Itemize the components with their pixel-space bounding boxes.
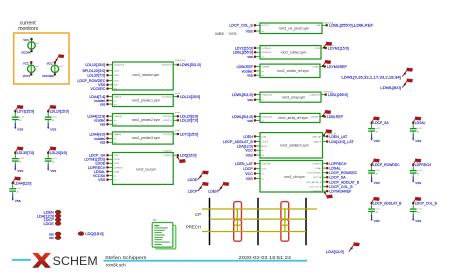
flag LDYMSAREF	[324, 192, 333, 199]
svg-text:LDEN_LAT: LDEN_LAT	[312, 135, 322, 138]
svg-text:LDYMG: LDYMG	[312, 66, 319, 68]
capacitor C_LDSAL	[410, 117, 426, 143]
svg-text:rom2_sa.sym: rom2_sa.sym	[136, 167, 156, 171]
net label LDCP	[188, 182, 209, 194]
svg-text:rom2_predec1.sym: rom2_predec1.sym	[132, 99, 160, 103]
svg-text:LDL2X[3:0]: LDL2X[3:0]	[163, 116, 172, 118]
svg-text:LDYM: LDYM	[315, 48, 320, 50]
svg-text:vss: vss	[247, 98, 253, 102]
svg-text:LDWL[0,16,32,1,17,33,2,18,34]: LDWL[0,16,32,1,17,33,2,18,34]	[341, 75, 400, 79]
svg-text:LDCP: LDCP	[261, 169, 267, 171]
capacitor C_LDPRECH	[410, 159, 432, 185]
svg-text:LDWL[511:0]: LDWL[511:0]	[261, 95, 272, 97]
svg-text:LDCP_B: LDCP_B	[261, 141, 269, 143]
port LDQ[15:0]	[78, 231, 103, 236]
svg-text:VSS: VSS	[17, 169, 23, 173]
svg-text:rom8k.sch: rom8k.sch	[106, 263, 126, 269]
svg-text:LDL1X[15:0]: LDL1X[15:0]	[162, 96, 172, 98]
text author	[105, 255, 147, 261]
svg-text:VCC: VCC	[23, 38, 29, 42]
block U12 rom2_ctrl	[235, 161, 360, 194]
capacitor C_LDCP_ADDLAT_B	[368, 197, 402, 223]
svg-text:LDCP_SA: LDCP_SA	[373, 121, 389, 125]
svg-text:m=1: m=1	[36, 43, 40, 45]
svg-text:m=16: m=16	[376, 128, 381, 130]
svg-text:LDSAL: LDSAL	[315, 167, 321, 170]
svg-text:rom2_array_ref.sym: rom2_array_ref.sym	[278, 116, 308, 120]
flag LDYMGREF	[322, 60, 331, 67]
svg-text:VSS: VSS	[50, 169, 56, 173]
svg-text:rom2_coldec_ref.sym: rom2_coldec_ref.sym	[277, 69, 309, 73]
text attr U11	[327, 132, 337, 135]
svg-text:LDWL[511:0]: LDWL[511:0]	[261, 116, 272, 118]
svg-text:m=16: m=16	[417, 128, 422, 130]
svg-text:LDCP_COL_B: LDCP_COL_B	[415, 202, 438, 206]
svg-text:LDCP_ADDLAT_B: LDCP_ADDLAT_B	[329, 180, 359, 184]
svg-text:LDA[12:0]: LDA[12:0]	[326, 249, 344, 254]
svg-text:LDWL[8:0]: LDWL[8:0]	[380, 86, 401, 90]
net label LDWL[8:0]	[380, 79, 412, 90]
svg-text:LDCP_COL_B: LDCP_COL_B	[309, 186, 321, 188]
svg-text:LDL1X[15:0]: LDL1X[15:0]	[50, 110, 69, 114]
svg-text:LDA[12:0]: LDA[12:0]	[313, 140, 321, 143]
svg-text:VSS: VSS	[17, 127, 23, 131]
port vcc	[49, 236, 61, 240]
net label LDWL[0,16,32,...]	[341, 68, 412, 80]
svg-text:LDWL[255:0]: LDWL[255:0]	[161, 65, 172, 67]
svg-text:m=16: m=16	[417, 208, 422, 210]
timing diagram markers	[210, 198, 307, 245]
svg-text:LDOE: LDOE	[114, 163, 120, 165]
svg-text:m=16: m=16	[52, 158, 57, 160]
svg-text:LDCP_COL_B: LDCP_COL_B	[229, 24, 253, 28]
port LDOE	[43, 222, 61, 226]
svg-text:LDCP_SA: LDCP_SA	[313, 176, 322, 179]
svg-text:LDWL[511:0]: LDWL[511:0]	[180, 63, 201, 67]
svg-text:VCC7: VCC7	[23, 74, 31, 78]
text attr U6	[323, 22, 333, 24]
text attr U4	[175, 130, 181, 132]
svg-text:VCC: VCC	[245, 149, 253, 153]
wire PRECH waveform	[202, 219, 306, 231]
svg-text:vcc: vcc	[261, 71, 264, 73]
svg-text:LDCP_B: LDCP_B	[261, 25, 269, 27]
svg-text:0: 0	[59, 70, 60, 72]
block U7 rom2_coldec	[233, 46, 349, 60]
block U4 rom2_predec3	[89, 132, 198, 145]
svg-text:LDBL[255:0]: LDBL[255:0]	[323, 92, 333, 94]
block U8 rom2_coldec_ref	[237, 64, 348, 78]
frame current monitors box	[14, 33, 69, 84]
block U9 rom3_array	[232, 92, 348, 102]
timing highlight boxes	[234, 202, 289, 242]
svg-text:vcc: vcc	[261, 150, 264, 152]
capacitor C_LDA4	[9, 177, 31, 203]
svg-text:vss: vss	[261, 120, 264, 122]
svg-text:LDCP: LDCP	[188, 190, 198, 194]
svg-text:LDPRECH: LDPRECH	[313, 163, 322, 165]
svg-text:LDBLREF: LDBLREF	[261, 66, 270, 68]
svg-text:LDQ[15:0]: LDQ[15:0]	[180, 154, 196, 158]
svg-text:LDL3X: LDL3X	[114, 75, 120, 77]
block U3 rom2_predec2	[87, 114, 198, 127]
svg-text:vss: vss	[247, 55, 253, 59]
svg-text:VCC: VCC	[245, 172, 253, 176]
logo text SCHEM	[53, 254, 98, 268]
svg-text:m=16: m=16	[376, 170, 381, 172]
svg-text:LDYMSAREF: LDYMSAREF	[310, 190, 322, 193]
svg-text:rom3_rowdec.sym: rom3_rowdec.sym	[132, 73, 159, 77]
svg-text:vss: vss	[100, 141, 106, 145]
note current monitors	[18, 20, 38, 32]
svg-text:LDYM1[15:0]: LDYM1[15:0]	[328, 46, 349, 50]
logo xschem dash	[12, 259, 31, 261]
svg-text:m=16: m=16	[376, 208, 381, 210]
svg-text:LDCP_ROWDEC: LDCP_ROWDEC	[373, 163, 400, 167]
svg-text:LDBL[255:0]: LDBL[255:0]	[323, 22, 333, 24]
svg-text:rom2_ctrl.sym: rom2_ctrl.sym	[284, 175, 305, 179]
svg-text:monitors: monitors	[18, 26, 38, 32]
net label LDA[12:0] spare	[326, 243, 360, 255]
svg-text:rom2_predec3.sym: rom2_predec3.sym	[132, 136, 160, 140]
svg-text:LDWL[511:0]: LDWL[511:0]	[232, 93, 253, 97]
capacitor C_LDL1X	[45, 105, 69, 131]
text CP	[195, 212, 201, 217]
svg-text:m=16: m=16	[19, 117, 24, 119]
svg-text:LDL1X[15:0]: LDL1X[15:0]	[85, 63, 105, 67]
svg-text:LDL3X[7:0]: LDL3X[7:0]	[17, 151, 34, 155]
svg-text:LDEN_LAT: LDEN_LAT	[235, 162, 254, 166]
svg-text:VSS: VSS	[15, 199, 21, 203]
svg-text:LDSAL: LDSAL	[114, 170, 120, 173]
svg-text:LDCP: LDCP	[114, 155, 120, 157]
ammeter VCC64	[21, 38, 39, 55]
flag LDBLREF	[322, 110, 331, 117]
svg-text:LDCP_ROWDEC: LDCP_ROWDEC	[329, 171, 357, 175]
svg-text:LDWL[511:0]: LDWL[511:0]	[175, 60, 186, 62]
svg-text:LDBLREF: LDBLREF	[311, 116, 320, 118]
svg-text:LDBL[255:0]: LDBL[255:0]	[233, 51, 253, 55]
svg-text:LDQ[15:0]: LDQ[15:0]	[163, 151, 172, 153]
svg-text:LDEN: LDEN	[243, 135, 253, 139]
text date	[239, 255, 292, 261]
svg-text:VSS: VSS	[50, 127, 56, 131]
svg-text:LDL2X[3:0]: LDL2X[3:0]	[50, 151, 67, 155]
svg-text:VCC0RC: VCC0RC	[91, 87, 106, 91]
svg-text:LDCP: LDCP	[243, 167, 253, 171]
svg-text:vss: vss	[114, 104, 117, 106]
svg-text:LDBLREF: LDBLREF	[327, 115, 344, 119]
svg-text:m=1: m=1	[59, 66, 63, 68]
svg-text:LDY1[15:0]: LDY1[15:0]	[17, 110, 34, 114]
svg-text:LDSAL: LDSAL	[415, 121, 426, 125]
text attr U1	[175, 60, 186, 62]
svg-text:LDY1[15:0]: LDY1[15:0]	[163, 134, 172, 136]
svg-text:LDBL: LDBL	[316, 25, 321, 27]
svg-text:2020-02-03 16:51:24: 2020-02-03 16:51:24	[239, 255, 292, 261]
svg-text:LDCP_ADDLAT_B: LDCP_ADDLAT_B	[306, 181, 322, 184]
svg-text:rom2_addlatch.sym: rom2_addlatch.sym	[280, 143, 309, 147]
svg-text:rom2_predec2.sym: rom2_predec2.sym	[132, 118, 160, 122]
wire CP waveform	[202, 209, 317, 219]
svg-text:LDPRECH: LDPRECH	[415, 163, 432, 167]
svg-text:LDBL[255:0],LDBLREF: LDBL[255:0],LDBLREF	[329, 24, 374, 28]
svg-text:A[12:0]: A[12:0]	[261, 145, 267, 148]
flag LDEN_LAT	[323, 130, 332, 137]
text attr U5	[163, 151, 172, 153]
flag LDYM1	[323, 42, 332, 49]
svg-text:vss: vss	[114, 180, 117, 182]
svg-text:LDY2[15:0]: LDY2[15:0]	[261, 48, 270, 50]
svg-text:rom2_coldec.sym: rom2_coldec.sym	[281, 51, 307, 55]
svg-text:WBE: WBE	[215, 31, 224, 36]
svg-text:rom3_array.sym: rom3_array.sym	[282, 95, 306, 99]
svg-text:LDL1X[15:0]: LDL1X[15:0]	[180, 95, 200, 99]
svg-text:vsa: vsa	[261, 75, 264, 77]
title underline	[104, 260, 308, 262]
svg-text:LDOE: LDOE	[188, 178, 198, 182]
svg-text:LDPRECH: LDPRECH	[329, 162, 347, 166]
svg-text:LDQ[15:0]: LDQ[15:0]	[164, 155, 173, 157]
logo xschem X	[32, 253, 51, 268]
capacitor C_LDY1	[12, 105, 34, 131]
port LDA[12:0]	[37, 214, 61, 218]
svg-text:LDCP_ADDLAT_B: LDCP_ADDLAT_B	[373, 202, 402, 206]
text attr U2	[175, 93, 181, 95]
svg-text:vss: vss	[261, 155, 264, 157]
svg-text:vss: vss	[247, 119, 253, 123]
svg-text:vss: vss	[114, 124, 117, 126]
svg-text:vccdec: vccdec	[175, 130, 181, 132]
capacitor C_LDCP_ROWDEC	[368, 159, 400, 185]
svg-text:LDEN: LDEN	[261, 136, 266, 138]
text PRECH	[186, 224, 201, 229]
wire CP complement waveform	[210, 209, 307, 219]
svg-text:0: 0	[36, 46, 37, 48]
svg-text:LDSAL: LDSAL	[329, 167, 340, 171]
svg-text:vccdec: vccdec	[175, 112, 181, 114]
block U10 rom2_array_ref	[232, 113, 344, 122]
svg-text:VSS: VSS	[246, 29, 254, 33]
svg-text:LDL1X[15:0]: LDL1X[15:0]	[114, 65, 124, 67]
svg-text:vcc: vcc	[114, 138, 117, 140]
svg-text:VSS: VSS	[415, 139, 421, 143]
svg-text:m=16: m=16	[17, 188, 22, 190]
svg-text:LDA4[3:0]: LDA4[3:0]	[89, 132, 105, 136]
svg-text:LDCP_ADDLAT_B: LDCP_ADDLAT_B	[223, 140, 253, 144]
svg-text:SCHEM: SCHEM	[53, 254, 98, 268]
svg-text:vcc: vcc	[261, 173, 264, 175]
svg-text:LDBL[255:0]: LDBL[255:0]	[310, 95, 320, 97]
svg-text:vss: vss	[114, 142, 117, 144]
net label LDEN	[208, 182, 229, 194]
port LDCP	[44, 218, 61, 222]
svg-text:LDL3X[7:0]: LDL3X[7:0]	[163, 120, 172, 122]
svg-text:vss: vss	[261, 31, 264, 33]
svg-text:vccdec: vccdec	[175, 93, 181, 95]
svg-text:LDPRECH: LDPRECH	[114, 167, 123, 169]
svg-text:m=16: m=16	[417, 170, 422, 172]
svg-text:m=1: m=1	[36, 66, 40, 68]
block U6 rom2_col_prech	[229, 23, 374, 34]
text WBE VSS	[215, 31, 237, 36]
svg-text:VSS: VSS	[415, 181, 421, 185]
port LDEN	[44, 210, 61, 214]
svg-text:VSS: VSS	[374, 219, 380, 223]
svg-text:LDL3X[7:0]: LDL3X[7:0]	[180, 119, 198, 123]
svg-text:vss: vss	[261, 57, 264, 59]
svg-text:VSS: VSS	[415, 219, 421, 223]
svg-text:LDA4[12:0]: LDA4[12:0]	[14, 181, 31, 185]
svg-text:VSS: VSS	[246, 153, 254, 157]
svg-text:PRECH: PRECH	[186, 224, 201, 229]
svg-text:VSS: VSS	[374, 181, 380, 185]
block U1 rom3_rowdec	[77, 62, 200, 91]
block U2 rom2_predec1	[89, 95, 200, 107]
svg-text:CP: CP	[195, 212, 201, 217]
svg-text:VSS: VSS	[229, 31, 237, 36]
svg-text:0: 0	[36, 70, 37, 72]
svg-text:rom2_col_prech.sym: rom2_col_prech.sym	[279, 26, 310, 30]
text attr U9	[323, 92, 333, 94]
svg-text:LDL3X[7:0]: LDL3X[7:0]	[87, 74, 105, 78]
port vss	[49, 232, 61, 236]
svg-text:LDY1[15:0]: LDY1[15:0]	[180, 132, 198, 136]
svg-text:VCC0RC: VCC0RC	[42, 74, 54, 78]
svg-text:BPLDL2X[3:0]: BPLDL2X[3:0]	[83, 69, 106, 73]
svg-text:LDYMSAREF: LDYMSAREF	[329, 190, 352, 194]
net label LDOE	[188, 171, 209, 183]
svg-text:vcc: vcc	[114, 100, 117, 102]
svg-text:LDA[3:0]: LDA[3:0]	[114, 133, 121, 136]
svg-text:LDYM1: LDYM1	[114, 159, 120, 161]
svg-text:LDOE: LDOE	[43, 222, 54, 226]
svg-text:vss: vss	[261, 178, 264, 180]
text attr U3	[175, 112, 181, 114]
capacitor C_LDCP_SA	[368, 117, 389, 143]
svg-text:vss: vss	[100, 103, 106, 107]
capacitor C_LDCP_COL_B	[410, 197, 438, 223]
svg-text:VSS: VSS	[246, 177, 254, 181]
svg-text:LDQ[15:0]: LDQ[15:0]	[85, 231, 103, 236]
svg-text:LDCP_SA: LDCP_SA	[329, 176, 346, 180]
text attr U7	[323, 45, 334, 47]
svg-text:m=16: m=16	[19, 158, 24, 160]
svg-text:LDYMGREF: LDYMGREF	[327, 65, 348, 69]
svg-text:VCC64: VCC64	[21, 51, 31, 55]
svg-text:S4: S4	[153, 218, 157, 222]
svg-text:VSS: VSS	[374, 139, 380, 143]
ammeter VCC0RC	[42, 54, 64, 78]
svg-text:LDCP: LDCP	[114, 81, 120, 83]
svg-text:LDCP_ROWDEC: LDCP_ROWDEC	[307, 173, 322, 175]
ammeter VCC7	[23, 61, 39, 78]
capacitor C_LDL2X	[45, 147, 67, 173]
svg-text:LDA[12:8]: LDA[12:8]	[114, 115, 122, 118]
svg-text:vss: vss	[261, 100, 264, 102]
svg-text:vcc: vcc	[49, 236, 54, 240]
text schematic file	[106, 263, 126, 269]
svg-text:LDEN: LDEN	[208, 190, 218, 194]
svg-text:LDL2X: LDL2X	[114, 71, 120, 73]
flag LDQ out	[177, 156, 186, 163]
svg-text:m=16: m=16	[52, 117, 57, 119]
launcher icon S4	[152, 218, 176, 249]
svg-text:vss: vss	[100, 123, 106, 127]
svg-text:LDBL[255:0]: LDBL[255:0]	[261, 52, 271, 54]
svg-text:LDEN_LAT: LDEN_LAT	[261, 162, 271, 165]
capacitor C_LDL3X	[12, 147, 34, 173]
svg-text:vcc: vcc	[114, 175, 117, 177]
svg-text:VSS: VSS	[98, 178, 106, 182]
svg-text:LDBLREF: LDBLREF	[237, 65, 254, 69]
svg-text:vsa: vsa	[247, 74, 253, 78]
svg-text:vcc: vcc	[114, 120, 117, 122]
svg-text:LDA[12:0]_LAT: LDA[12:0]_LAT	[329, 140, 354, 144]
svg-text:VCC: VCC	[47, 61, 53, 65]
block U5 rom2_sa	[84, 153, 196, 185]
svg-text:LDCP_COL_B: LDCP_COL_B	[329, 185, 353, 189]
block U11 rom2_addlatch	[223, 133, 355, 158]
svg-text:VCC: VCC	[23, 61, 29, 65]
svg-text:LDA[7:4]: LDA[7:4]	[114, 95, 121, 98]
